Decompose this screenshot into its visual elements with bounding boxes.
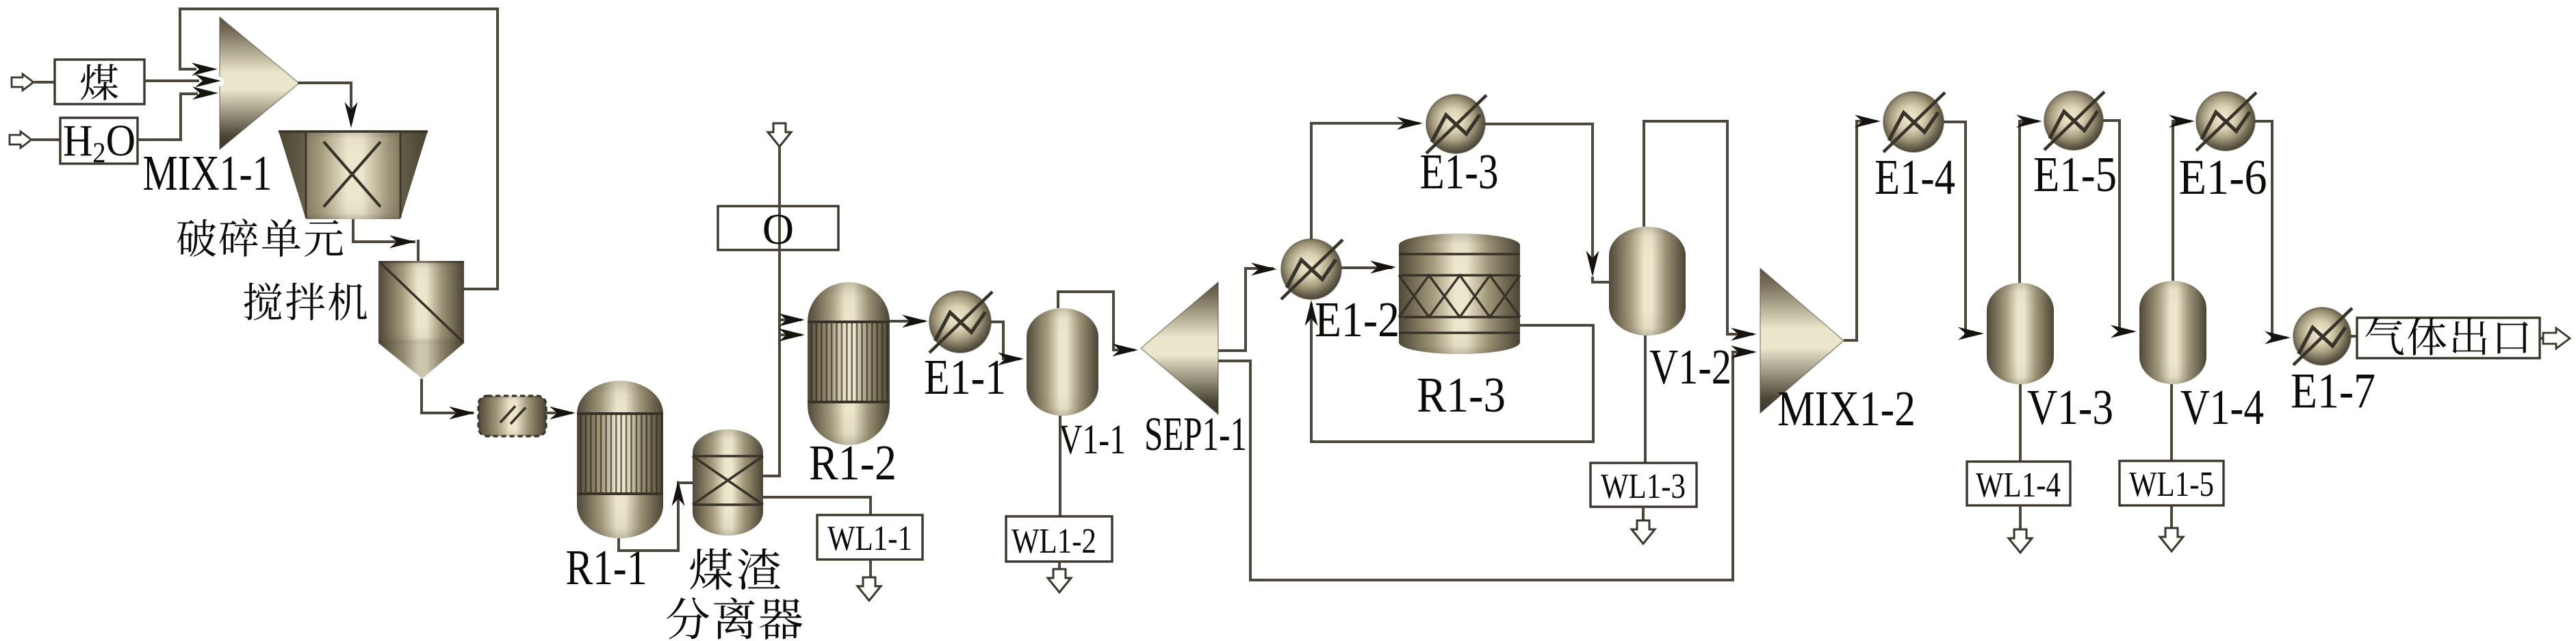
drum V1-4 xyxy=(2139,281,2206,384)
wire E1-7 to outlet box xyxy=(2351,335,2357,338)
arrow into E1-6 xyxy=(2169,115,2195,128)
mixer MIX1-2 xyxy=(1760,268,1844,413)
heat exchanger E1-7 xyxy=(2293,307,2352,365)
reactor R1-2 xyxy=(808,282,890,445)
svg-text:E1-3: E1-3 xyxy=(1420,144,1499,199)
outlet arrow WL1-5 xyxy=(2160,528,2183,551)
label WL1-1 xyxy=(827,519,912,558)
label WL1-4 xyxy=(1976,466,2061,505)
svg-text:V1-3: V1-3 xyxy=(2027,379,2113,435)
wire crusher to agitator xyxy=(353,219,415,242)
wire E1-2 to E1-3 xyxy=(1311,123,1419,239)
arrow into MIX1-1 top xyxy=(192,63,218,76)
wire V1-4 to E1-6 xyxy=(2173,121,2191,281)
wire separator to WL1-1 xyxy=(763,497,871,515)
wire WL1-4 stem xyxy=(2019,505,2022,529)
stream box 气体出口 xyxy=(2357,318,2540,358)
wire into agitator top xyxy=(417,240,420,261)
label V1-3 xyxy=(2027,379,2113,435)
label E1-5 xyxy=(2033,147,2117,202)
wire V1-4 to WL1-5 xyxy=(2170,384,2173,461)
agitator tank xyxy=(378,261,464,379)
stream box WL1-1 xyxy=(817,515,923,560)
heat exchanger E1-2 xyxy=(1281,239,1343,299)
label V1-2 xyxy=(1649,339,1731,394)
label E1-3 xyxy=(1420,144,1499,199)
label 气体出口 xyxy=(2365,318,2528,355)
feed arrow H2O xyxy=(10,131,31,148)
wire E1-4 to V1-3 xyxy=(1944,122,1980,334)
arrow into MIX1-2 lower xyxy=(1731,346,1757,359)
svg-text:SEP1-1: SEP1-1 xyxy=(1144,408,1247,461)
arrow into crusher xyxy=(345,102,358,128)
arrow into E1-4 xyxy=(1855,115,1881,128)
wire recycle to MIX1-1 xyxy=(180,9,498,289)
wire WL1-5 stem xyxy=(2170,505,2173,528)
wire agitator to pipe xyxy=(422,379,474,413)
svg-text:E1-6: E1-6 xyxy=(2179,149,2267,205)
label V1-4 xyxy=(2180,379,2264,435)
mixer MIX1-1 xyxy=(220,17,299,149)
arrow into E1-5 xyxy=(2016,115,2042,128)
arrow into R1-1 xyxy=(550,407,576,420)
stream box WL1-3 xyxy=(1590,463,1697,507)
svg-text:MIX1-2: MIX1-2 xyxy=(1777,381,1916,436)
label 破碎单元 xyxy=(177,218,343,257)
label E1-7 xyxy=(2291,363,2375,418)
label E1-2 xyxy=(1315,292,1400,347)
svg-text:WL1-1: WL1-1 xyxy=(827,519,912,558)
arrow into MIX1-1 bottom xyxy=(192,87,218,100)
label SEP1-1 xyxy=(1144,408,1247,461)
wire V1-2 to WL1-3 xyxy=(1644,336,1647,463)
wire into V1-2 xyxy=(1593,277,1609,282)
wire O and separator vapor xyxy=(763,147,780,476)
label 煤渣 xyxy=(690,549,780,590)
wire coal to MIX1-1 xyxy=(144,79,199,82)
label 搅拌机 xyxy=(244,283,368,320)
label E1-6 xyxy=(2179,149,2267,205)
arrow into E1-3 xyxy=(1397,117,1423,130)
wire O to R1-2 upper xyxy=(780,318,801,321)
stream box H2O xyxy=(60,118,138,164)
arrow into V1-3 xyxy=(1958,327,1984,340)
arrow into E1-1 xyxy=(902,315,928,328)
wire R1-3 recycle to E1-2 xyxy=(1311,303,1593,442)
wire pipe to R1-1 xyxy=(546,412,572,414)
svg-text:R1-3: R1-3 xyxy=(1417,367,1506,423)
wire E1-1 to V1-1 xyxy=(990,322,1020,359)
label MIX1-1 xyxy=(143,145,272,201)
outlet arrow WL1-3 xyxy=(1632,520,1655,544)
svg-text:V1-4: V1-4 xyxy=(2180,379,2264,435)
label R1-3 xyxy=(1417,367,1506,423)
product arrow 气体出口 xyxy=(2543,328,2570,349)
wire SEP1-1 to MIX1-2 xyxy=(1218,352,1753,580)
label O xyxy=(762,205,794,253)
wire V1-3 to E1-5 xyxy=(2020,121,2038,283)
wire separator inlet stub xyxy=(678,481,693,484)
svg-text:E1-7: E1-7 xyxy=(2291,363,2375,418)
svg-text:V1-2: V1-2 xyxy=(1649,339,1731,394)
wire E1-2 to R1-3 xyxy=(1341,266,1393,269)
svg-text:E1-4: E1-4 xyxy=(1875,149,1955,205)
wire E1-3 to V1-2 xyxy=(1485,124,1593,273)
stream box WL1-5 xyxy=(2120,461,2224,505)
heat exchanger E1-1 xyxy=(929,291,992,353)
node MIX1-1 inlet notch xyxy=(214,77,224,86)
stream box WL1-2 xyxy=(1006,516,1112,562)
wire V1-2 to MIX1-2 xyxy=(1644,121,1753,334)
label WL1-2 xyxy=(1012,522,1096,561)
label E1-1 xyxy=(924,349,1006,405)
svg-text:E1-2: E1-2 xyxy=(1315,292,1400,347)
heat exchanger E1-4 xyxy=(1883,92,1945,152)
wire H2O feed xyxy=(32,138,60,141)
arrow into MIX1-1 mid xyxy=(195,75,221,88)
wire coal feed xyxy=(34,81,55,84)
outlet arrow WL1-2 xyxy=(1048,569,1071,592)
arrow into E1-2 xyxy=(1251,263,1277,276)
label R1-2 xyxy=(809,435,897,490)
slag separator xyxy=(693,429,763,536)
arrow into SEP1-1 xyxy=(1112,344,1138,357)
wire E1-5 to V1-4 xyxy=(2103,121,2133,331)
drum V1-2 xyxy=(1609,227,1686,336)
arrow into R1-2 upper xyxy=(779,314,805,327)
wire V1-3 to WL1-4 xyxy=(2019,384,2022,462)
arrow into E1-2 bottom xyxy=(1305,300,1318,326)
svg-text:O: O xyxy=(762,205,794,253)
wire WL1-3 stem xyxy=(1642,507,1645,520)
svg-text:WL1-2: WL1-2 xyxy=(1012,522,1096,561)
wire MIX1-1 to crusher xyxy=(298,83,351,123)
outlet arrow WL1-4 xyxy=(2009,529,2032,553)
label E1-4 xyxy=(1875,149,1955,205)
arrow into R1-2 lower xyxy=(779,329,805,342)
heat exchanger E1-3 xyxy=(1426,95,1486,153)
arrow into pipe xyxy=(449,407,475,420)
arrow into separator xyxy=(672,480,685,506)
slurry pipe (dashed) xyxy=(478,396,546,436)
crusher unit xyxy=(279,131,428,219)
outlet arrow WL1-1 xyxy=(858,577,881,601)
label WL1-3 xyxy=(1601,467,1686,506)
svg-text:R1-1: R1-1 xyxy=(566,540,647,595)
svg-text:WL1-5: WL1-5 xyxy=(2129,465,2214,504)
drum V1-3 xyxy=(1987,283,2054,384)
arrow into MIX1-2 upper xyxy=(1731,328,1757,341)
label R1-1 xyxy=(566,540,647,595)
feed arrow O xyxy=(768,123,791,147)
label WL1-5 xyxy=(2129,465,2214,504)
label V1-1 xyxy=(1059,417,1126,463)
wire R1-2 to E1-1 xyxy=(890,320,925,323)
stream box O xyxy=(718,206,838,250)
heat exchanger E1-5 xyxy=(2044,91,2104,150)
svg-text:R1-2: R1-2 xyxy=(809,435,897,490)
svg-text:WL1-4: WL1-4 xyxy=(1976,466,2061,505)
wire H2O to MIX1-1 xyxy=(138,94,198,140)
label 分离器 xyxy=(667,597,802,639)
label H2O xyxy=(63,116,136,169)
wire V1-1 to SEP1-1 xyxy=(1058,292,1135,350)
svg-text:WL1-3: WL1-3 xyxy=(1601,467,1686,506)
arrow into V1-4 xyxy=(2111,325,2137,338)
svg-text:E1-1: E1-1 xyxy=(924,349,1006,405)
arrow into E1-7 xyxy=(2265,331,2291,344)
stream box WL1-4 xyxy=(1967,462,2070,505)
heat exchanger E1-6 xyxy=(2196,92,2256,151)
wire R1-1 to separator xyxy=(619,481,678,551)
arrow into agitator line xyxy=(389,236,415,249)
stream box 煤 xyxy=(55,60,144,104)
wire sep vapor to R1-2 lower xyxy=(780,334,801,336)
svg-text:MIX1-1: MIX1-1 xyxy=(143,145,272,201)
arrow into R1-3 xyxy=(1370,261,1396,274)
svg-text:E1-5: E1-5 xyxy=(2033,147,2117,202)
wire V1-1 to WL1-2 xyxy=(1059,416,1061,516)
drum V1-1 xyxy=(1027,308,1098,416)
svg-text:V1-1: V1-1 xyxy=(1059,417,1126,463)
arrow E1-3 line down xyxy=(1586,251,1599,277)
label MIX1-2 xyxy=(1777,381,1916,436)
reactor R1-3 xyxy=(1399,234,1520,354)
wire WL1-2 stem xyxy=(1058,562,1061,569)
feed arrow coal xyxy=(12,74,34,90)
wire MIX1-2 to E1-4 xyxy=(1844,121,1877,340)
wire SEP1-1 to E1-2 xyxy=(1218,268,1274,351)
separator SEP1-1 xyxy=(1141,282,1218,414)
arrow into V1-1 xyxy=(998,353,1024,366)
label 煤 xyxy=(81,64,118,100)
wire E1-6 to E1-7 xyxy=(2255,121,2287,338)
reactor R1-1 xyxy=(577,381,663,538)
wire outlet stub xyxy=(2540,337,2544,340)
wire WL1-1 stem xyxy=(869,560,872,577)
